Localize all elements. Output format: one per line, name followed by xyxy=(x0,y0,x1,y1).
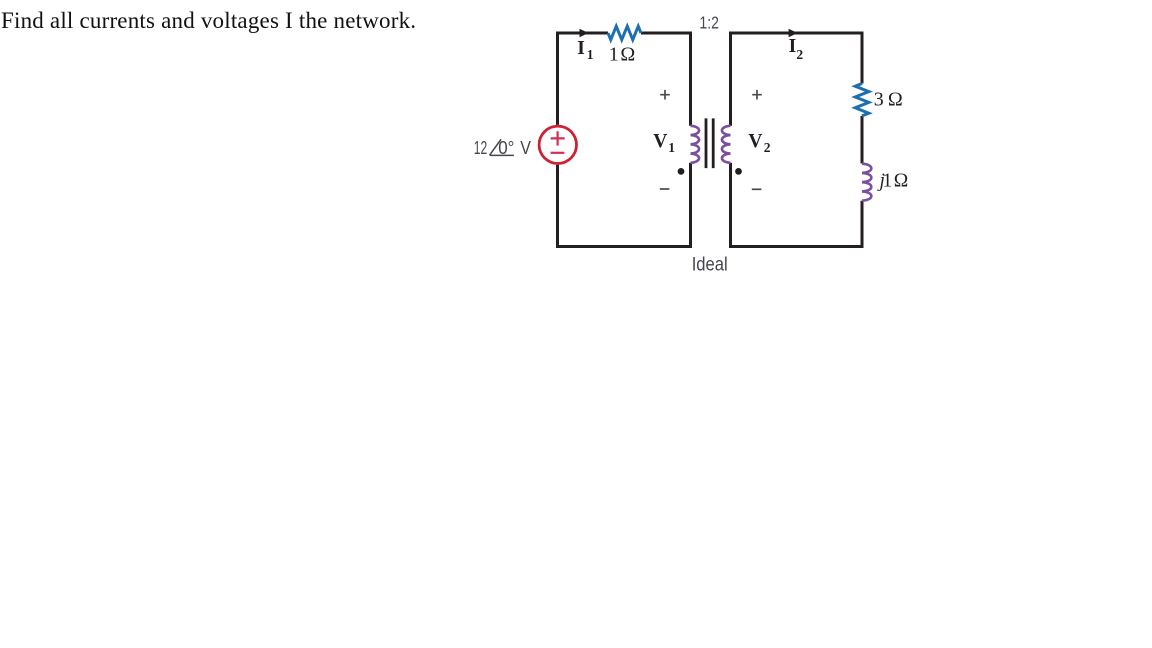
svg-text:1Ω: 1Ω xyxy=(609,44,636,66)
svg-text:Ideal: Ideal xyxy=(692,253,728,275)
svg-text:3Ω: 3Ω xyxy=(874,89,903,111)
svg-text:1:2: 1:2 xyxy=(699,13,719,33)
svg-text:j1Ω: j1Ω xyxy=(877,171,909,192)
svg-text:V: V xyxy=(748,131,762,152)
svg-text:1: 1 xyxy=(587,47,594,62)
svg-text:2: 2 xyxy=(796,47,803,62)
svg-text:V: V xyxy=(520,138,531,158)
svg-text:1: 1 xyxy=(668,140,675,155)
svg-text:I: I xyxy=(577,38,585,59)
svg-text:V: V xyxy=(653,131,667,152)
svg-text:2: 2 xyxy=(764,140,771,155)
svg-text:12: 12 xyxy=(474,138,487,158)
svg-text:I: I xyxy=(789,36,797,57)
svg-text:0°: 0° xyxy=(498,138,514,158)
